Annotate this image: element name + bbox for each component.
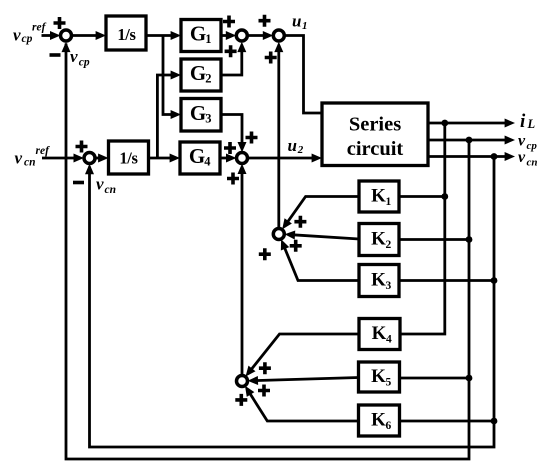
plus sign at S2 input [76,141,88,153]
wire G2 output up into S3 [221,49,242,75]
plus sign SU2 right of G3 drop [246,132,258,144]
svg-text:v: v [518,133,526,150]
plus sign S6 top-right [259,362,271,374]
wire K2 output into S5 [291,235,359,239]
summing junction S6 (K4-K6 sum) [237,376,248,387]
wire K3 output into S5 [284,246,359,280]
junction dot vcp to K2 [466,236,473,243]
summing junction S3 (after G1) [236,30,247,41]
block K4 [359,319,400,350]
svg-text:5: 5 [386,376,392,388]
svg-text:2: 2 [205,72,211,86]
wire integrator bottom output to G4 [149,157,174,160]
svg-text:1: 1 [386,196,392,208]
junction dot iL line [441,120,448,127]
junction dot vcp to K5 [466,375,473,382]
wire output iL [428,122,507,125]
svg-text:circuit: circuit [347,138,404,160]
svg-text:3: 3 [205,111,211,125]
junction dot vcn to K6 [491,418,498,425]
svg-text:G: G [189,144,205,168]
svg-text:ref: ref [32,22,47,34]
junction dot vcp line [466,137,473,144]
block K5 [359,362,400,392]
plus sign S6 bottom-left [235,394,247,406]
svg-text:cp: cp [22,33,33,45]
wire output vcn [428,155,507,158]
block K6 [359,405,400,436]
block K1 [359,181,399,212]
svg-text:i: i [520,111,526,132]
plus sign S4 lower-left [265,52,277,64]
svg-text:K: K [371,410,386,431]
wire K6 output into S6 [248,391,359,421]
wire branch bottom channel up to G2 [157,75,174,158]
plus sign S6 right [258,385,270,397]
wire branch top channel down to G3 [163,36,174,115]
svg-text:G: G [190,101,206,125]
svg-text:G: G [190,22,206,46]
junction dot vcn line [491,153,498,160]
plus sign SU2 left of G4 arrow [224,142,236,154]
wire vcp feedback vertical down and back to S1 [66,44,469,460]
block G4 [180,142,220,174]
svg-text:v: v [13,26,21,45]
minus sign at S1 feedback [50,53,61,57]
svg-text:u: u [288,136,297,155]
node u1 label [292,12,308,33]
wire S2 to integrator 1/s bottom [95,157,101,160]
plus sign S5 top-right [294,216,306,228]
wire output vcp [428,139,507,142]
summing junction S4 (u1) [273,30,284,41]
block 1/s bottom integrator [109,141,149,174]
wire G4 output to SU2 [220,157,230,160]
svg-text:v: v [96,175,104,194]
svg-text:2: 2 [297,144,304,156]
svg-text:cp: cp [79,57,90,69]
plus sign S5 right [290,240,302,252]
block 1/s top integrator [106,16,146,50]
svg-text:cn: cn [527,157,538,169]
svg-text:1/s: 1/s [117,25,136,44]
svg-text:cn: cn [24,157,36,169]
wire vcn_ref input into S2 [42,157,77,160]
svg-text:cn: cn [105,184,117,196]
summing junction SU2 (u2, after G4) [237,153,248,164]
wire K2 input from vcp vertical [399,238,469,241]
svg-text:v: v [15,149,23,168]
wire K5 output into S6 [254,378,359,381]
svg-text:K: K [371,186,386,207]
block G3 [181,99,221,132]
svg-text:L: L [527,117,536,131]
plus sign S3 lower-left [225,45,237,57]
node vcp feedback label [70,47,90,69]
block K3 [359,265,399,297]
plus sign S3 upper-left [223,16,235,28]
wire K4 output into S6 [248,334,359,374]
svg-text:K: K [371,270,386,291]
wire S4 output u1 into Series circuit [284,36,322,114]
svg-text:u: u [292,12,301,31]
svg-text:G: G [190,61,206,85]
plus sign at S1 input [54,17,66,29]
wire S3 to S4 [247,34,266,37]
summing junction S2 (vcn comparator) [84,153,95,164]
block K2 [359,224,399,256]
wire integrator top output to G1 [146,34,174,37]
block G1 [181,20,221,52]
node vcn_ref label [15,145,51,169]
svg-text:1/s: 1/s [119,149,138,168]
plus sign S4 upper-left [259,15,271,27]
svg-text:4: 4 [386,333,392,345]
wire K5 input from vcp vertical [400,377,470,380]
summing junction S5 (K1-K3 sum) [273,229,284,240]
wire S1 to integrator 1/s top [72,34,99,37]
wire G1 output to S3 [221,34,229,37]
svg-text:2: 2 [386,239,392,251]
svg-text:6: 6 [386,420,392,432]
minus sign at S2 feedback [73,181,84,185]
junction dot iL to K1 [441,193,448,200]
wire S6 output up into SU2 [241,171,244,376]
svg-text:ref: ref [36,145,51,157]
junction dot vcn to K3 [491,277,498,284]
node iL label [520,111,536,132]
plus sign S5 bottom-left [259,248,271,260]
node u2 label [288,136,304,156]
wire S5 output up into S4 [277,49,280,228]
svg-text:1: 1 [205,32,211,46]
svg-text:cp: cp [527,140,538,152]
node vcn output label [518,149,538,169]
wire K1 input from iL vertical [399,195,445,198]
wire K1 output into S5 [285,197,360,227]
wire vcn feedback vertical down and back to S2 [90,157,495,448]
node vcp_ref label [13,22,47,46]
wire iL feedback vertical to K1 and K4 [400,123,445,334]
plus sign SU2 lower-left [227,173,239,185]
svg-text:K: K [372,323,387,344]
wire K3 input from vcn vertical [399,279,494,282]
wire SU2 output u2 into Series circuit [248,157,315,160]
summing junction S1 (vcp comparator) [61,30,72,41]
node vcp output label [518,133,537,153]
block G2 [181,59,221,91]
svg-text:K: K [371,366,386,387]
svg-text:v: v [518,149,526,166]
svg-text:4: 4 [204,155,211,169]
node vcn feedback label [96,175,116,197]
svg-text:3: 3 [386,280,392,292]
svg-text:v: v [70,47,78,66]
svg-text:1: 1 [302,20,308,32]
block Series circuit [322,103,428,166]
wire G3 output down into SU2 [221,115,242,146]
wire vcp_ref input into S1 [42,34,54,37]
wire K6 input from vcn vertical [400,420,495,423]
svg-text:K: K [371,229,386,250]
svg-text:Series: Series [349,114,401,136]
